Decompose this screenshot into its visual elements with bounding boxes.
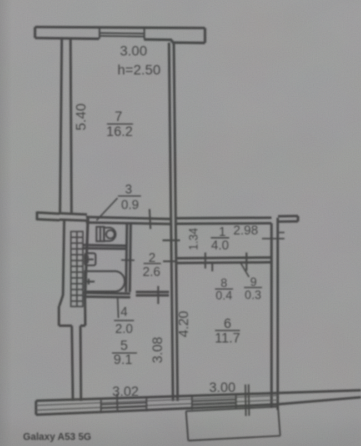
wall bath bottom (83, 293, 131, 297)
step block lower left (59, 299, 85, 401)
vent shaft hatched strip (71, 232, 83, 307)
leader room9 (241, 264, 249, 278)
line room5 (112, 352, 137, 354)
wall stub right neighbour (278, 216, 298, 222)
bottom exterior wall band (36, 390, 361, 415)
entrance door ticks (262, 233, 285, 239)
window W5 (101, 398, 147, 413)
wall toilet bottom (83, 245, 127, 249)
wall central vertical (169, 43, 178, 401)
leader room4 (117, 298, 120, 319)
svg-text:Galaxy A53 5G: Galaxy A53 5G (23, 432, 92, 443)
window W7 in top bar (100, 27, 145, 39)
tick pair right of window W6 (245, 384, 249, 416)
line room8 (215, 288, 233, 290)
bathtub (85, 271, 125, 291)
closet tick left (204, 253, 206, 269)
line room7 (107, 123, 133, 125)
small tick window W5 left (116, 394, 119, 413)
washbasin (85, 253, 96, 265)
door tick hallway lower (163, 260, 176, 262)
closet partition 8/9 (246, 253, 248, 271)
line room3 (118, 195, 141, 197)
leader room3 (97, 198, 118, 221)
wall closets front (177, 258, 272, 264)
wall room7 bottom (60, 213, 171, 224)
window W6 (192, 395, 236, 410)
line room4 (114, 320, 134, 322)
door tick bath-room2 (121, 259, 134, 261)
line room1 (211, 237, 229, 239)
wall toilet left (87, 217, 88, 249)
fraction lines under room numbers (107, 124, 262, 353)
door tick room4/2 (157, 286, 159, 304)
wall left exterior (59, 38, 71, 307)
door tick room7 (150, 209, 151, 229)
line room2 (144, 263, 162, 265)
balcony parapet top bar (35, 27, 205, 43)
wall room4 top right segment (136, 292, 169, 295)
door tick hallway-room2 (163, 239, 181, 241)
wall right exterior (272, 218, 278, 410)
line room9 (244, 287, 262, 289)
wall right of shaft (85, 248, 87, 299)
balcony bottom right (186, 407, 280, 441)
band inner lines (36, 395, 278, 410)
line room6 (215, 330, 240, 332)
closet stub (211, 263, 213, 271)
wall mid horizontal left stub (37, 212, 60, 221)
toilet tank (97, 227, 105, 242)
toilet bowl (104, 228, 116, 241)
wall toilet/bath right (126, 223, 131, 293)
wall hallway top (177, 218, 272, 224)
